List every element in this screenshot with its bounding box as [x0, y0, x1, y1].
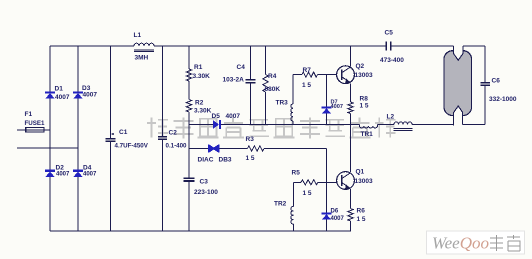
- diode D5: [213, 120, 221, 129]
- label C3 value 223-100: [194, 189, 218, 196]
- label C6: [492, 78, 501, 85]
- transistor Q2: [337, 66, 355, 84]
- label D6 value 4007: [331, 216, 345, 222]
- label C3: [200, 179, 209, 186]
- fuse F1: [26, 127, 44, 132]
- wire Q1 base: [293, 181, 336, 183]
- label R1: [194, 64, 203, 71]
- label R5: [292, 170, 301, 177]
- label D5: [212, 113, 221, 120]
- svg-text:13003: 13003: [355, 72, 373, 79]
- svg-text:C1: C1: [119, 129, 128, 136]
- svg-text:13003: 13003: [355, 178, 373, 185]
- label TR2: [274, 201, 287, 208]
- wire D6 branch: [326, 182, 328, 231]
- svg-text:TR2: TR2: [274, 201, 287, 208]
- transformer winding TR2 wire: [292, 182, 294, 231]
- lamp top filament: [454, 46, 464, 60]
- wire Q1 emitter to R6: [350, 189, 352, 208]
- svg-text:DB3: DB3: [219, 157, 232, 164]
- label Q2 value 13003: [355, 72, 373, 79]
- svg-text:R3: R3: [246, 136, 255, 143]
- label D1: [55, 86, 64, 93]
- transformer winding TR3 wire: [292, 75, 294, 104]
- wire C1 branch: [110, 46, 112, 231]
- label C1: [119, 129, 128, 136]
- wire AC input line 1 (to fuse): [17, 129, 50, 131]
- wire Q2 emitter to R8: [350, 83, 352, 102]
- svg-text:R1: R1: [194, 64, 203, 71]
- wire lamp bottom-right to C6: [463, 124, 486, 126]
- svg-text:D4: D4: [83, 165, 92, 172]
- svg-text:4007: 4007: [83, 92, 98, 99]
- wire mid rail L2 to lamp: [412, 124, 454, 126]
- label Q2: [356, 63, 365, 70]
- wire trigger line from R2 bottom: [189, 148, 209, 150]
- label C1 value: [115, 143, 149, 150]
- wire C2 branch: [162, 46, 164, 231]
- lamp bottom filament: [454, 106, 463, 126]
- label R8: [360, 96, 369, 103]
- wire R8 to mid rail: [350, 114, 352, 125]
- label R6 value 15: [357, 216, 366, 223]
- label R2: [195, 100, 204, 107]
- diode D7: [322, 106, 332, 113]
- wire top rail C5 to lamp: [391, 45, 454, 47]
- label Q1: [356, 169, 365, 176]
- inductor L1: [134, 43, 154, 51]
- label D1 value 4007: [55, 94, 70, 101]
- label C5 value 473-400: [380, 57, 404, 64]
- diode D3: [73, 91, 83, 98]
- wire bridge branch 2: [77, 46, 79, 231]
- svg-text:F1: F1: [25, 111, 33, 118]
- svg-text:4007: 4007: [331, 104, 343, 110]
- wire mid rail left: [189, 124, 213, 126]
- diode D1: [45, 91, 55, 98]
- svg-text:C3: C3: [200, 179, 209, 186]
- svg-text:C2: C2: [169, 130, 178, 137]
- diac DB3: [208, 144, 220, 152]
- resistor R1: [186, 69, 191, 81]
- wire DIAC to R3: [220, 148, 248, 150]
- fluorescent lamp tube: [444, 50, 472, 117]
- svg-text:3MH: 3MH: [135, 55, 149, 62]
- svg-text:L2: L2: [387, 114, 395, 121]
- svg-text:R8: R8: [360, 96, 369, 103]
- label D2 value 4007: [56, 172, 70, 178]
- svg-text:Q2: Q2: [356, 63, 365, 70]
- svg-text:3.30K: 3.30K: [193, 73, 211, 80]
- wire Q2 collector from top rail: [350, 46, 352, 66]
- label FUSE1: [25, 120, 46, 127]
- wire R1 R2 C3 branch: [188, 46, 190, 231]
- label D3 value 4007: [83, 92, 98, 99]
- svg-text:103-2A: 103-2A: [223, 77, 245, 84]
- label C2 value 0.1-400: [166, 143, 188, 150]
- svg-text:D5: D5: [212, 113, 221, 120]
- svg-text:1 5: 1 5: [246, 155, 255, 162]
- label L1 value 3MH: [135, 55, 149, 62]
- label Q1 value 13003: [355, 178, 373, 185]
- transformer winding TR3: [291, 104, 293, 125]
- svg-text:4007: 4007: [56, 172, 70, 178]
- diode D6: [322, 212, 332, 219]
- svg-text:D6: D6: [331, 209, 339, 215]
- label F1: [25, 111, 33, 118]
- label R7: [303, 67, 312, 74]
- wire Q2 base: [293, 74, 336, 76]
- svg-text:D2: D2: [56, 165, 65, 172]
- wire mid rail D5 to TR1: [221, 124, 360, 126]
- svg-text:R4: R4: [268, 73, 277, 80]
- svg-text:4007: 4007: [226, 113, 241, 120]
- wire bottom rail: [50, 230, 351, 232]
- svg-text:1 5: 1 5: [360, 103, 369, 110]
- svg-text:4007: 4007: [55, 94, 70, 101]
- label DIAC: [198, 157, 214, 164]
- label L2: [387, 114, 395, 121]
- resistor R4: [263, 75, 268, 92]
- capacitor C5: [386, 41, 390, 50]
- label TR1: [361, 131, 374, 138]
- svg-text:C6: C6: [492, 78, 501, 85]
- capacitor C3: [184, 178, 195, 181]
- diode D2: [45, 170, 55, 177]
- label R3 value 15: [246, 155, 255, 162]
- svg-text:223-100: 223-100: [194, 189, 218, 196]
- label R8 value 15: [360, 103, 369, 110]
- diode D4: [73, 170, 83, 177]
- wire C4 branch: [250, 46, 252, 125]
- label D7 value 4007: [331, 104, 343, 110]
- transformer winding TR1: [360, 125, 378, 128]
- label L1: [134, 32, 142, 39]
- inductor L2: [394, 122, 413, 130]
- wire R6 to bottom rail: [350, 221, 352, 231]
- svg-text:C4: C4: [237, 64, 246, 71]
- svg-text:FUSE1: FUSE1: [25, 120, 46, 127]
- svg-text:R5: R5: [292, 170, 301, 177]
- svg-text:R2: R2: [195, 100, 204, 107]
- label C4: [237, 64, 246, 71]
- svg-text:1 5: 1 5: [357, 216, 366, 223]
- transistor Q1: [337, 172, 355, 190]
- svg-text:Q1: Q1: [356, 169, 365, 176]
- capacitor C4: [246, 80, 256, 83]
- label C6 value 332-1000: [489, 96, 517, 103]
- label R4: [268, 73, 277, 80]
- wire D7 branch: [326, 75, 328, 125]
- svg-text:C5: C5: [385, 30, 394, 37]
- label C4 value 103-2A: [223, 77, 245, 84]
- svg-text:L1: L1: [134, 32, 142, 39]
- wire bridge branch 1: [49, 46, 51, 231]
- svg-text:680K: 680K: [265, 86, 281, 93]
- svg-text:4007: 4007: [331, 216, 345, 222]
- resistor R7: [302, 72, 318, 77]
- label D2: [56, 165, 65, 172]
- label R6: [357, 208, 366, 215]
- svg-text:0.1-400: 0.1-400: [166, 143, 188, 150]
- svg-text:R6: R6: [357, 208, 366, 215]
- wire C6 branch: [484, 46, 486, 125]
- wire top-right segment: [463, 45, 485, 47]
- label C5: [385, 30, 394, 37]
- svg-text:DIAC: DIAC: [198, 157, 214, 164]
- svg-text:TR1: TR1: [361, 131, 374, 138]
- resistor R8: [348, 102, 353, 113]
- svg-text:1 5: 1 5: [302, 82, 311, 89]
- label TR3: [276, 100, 289, 107]
- wire R4 branch: [265, 46, 267, 125]
- watermark center text: [147, 118, 396, 139]
- svg-text:332-1000: 332-1000: [489, 96, 517, 103]
- label C2: [169, 130, 178, 137]
- label D4: [83, 165, 92, 172]
- svg-text:1 5: 1 5: [303, 190, 312, 197]
- label D5 value 4007: [226, 113, 241, 120]
- capacitor C6: [481, 83, 490, 86]
- resistor R6: [348, 209, 353, 221]
- svg-text:473-400: 473-400: [380, 57, 404, 64]
- label D7: [331, 99, 338, 105]
- label R7 value 15: [302, 82, 311, 89]
- wire top rail L1 to C5: [154, 45, 386, 47]
- label D3: [82, 85, 91, 92]
- capacitor C1: [106, 133, 116, 142]
- label R1 value 3.30K: [193, 73, 211, 80]
- watermark WeeQoo: [427, 231, 525, 254]
- label R2 value 3.30K: [194, 108, 212, 115]
- wire top rail left of L1: [50, 45, 134, 47]
- wire AC input line 2: [17, 147, 78, 149]
- label R3: [246, 136, 255, 143]
- label R4 value 680K: [265, 86, 281, 93]
- label DB3: [219, 157, 232, 164]
- wire Q1 collector from mid rail: [350, 125, 352, 173]
- resistor R3: [248, 146, 265, 151]
- svg-text:4007: 4007: [83, 172, 97, 178]
- svg-text:WeeQoo: WeeQoo: [432, 234, 489, 253]
- resistor R2: [186, 100, 191, 113]
- label R5 value 15: [303, 190, 312, 197]
- label D6: [331, 209, 339, 215]
- wire R3 to Q1 base node: [264, 149, 327, 183]
- svg-text:4.7UF-450V: 4.7UF-450V: [115, 143, 149, 150]
- capacitor C2: [158, 137, 167, 140]
- resistor R5: [301, 180, 318, 185]
- svg-text:3.30K: 3.30K: [194, 108, 212, 115]
- svg-text:D1: D1: [55, 86, 64, 93]
- wire mid rail TR1 to L2: [378, 124, 395, 126]
- svg-text:R7: R7: [303, 67, 312, 74]
- transformer winding TR2: [291, 207, 294, 225]
- label D4 value 4007: [83, 172, 97, 178]
- svg-text:TR3: TR3: [276, 100, 289, 107]
